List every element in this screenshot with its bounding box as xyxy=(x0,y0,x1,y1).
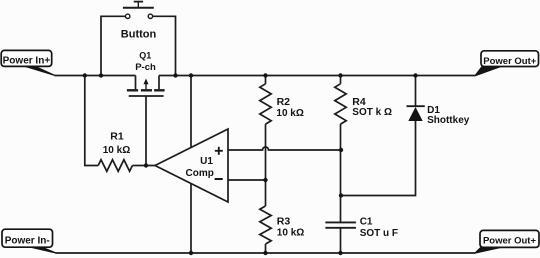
svg-text:C1: C1 xyxy=(360,216,373,227)
svg-text:R3: R3 xyxy=(277,215,291,227)
svg-text:Shottkey: Shottkey xyxy=(427,115,470,126)
svg-text:Power In-: Power In- xyxy=(5,235,50,246)
svg-text:10 kΩ: 10 kΩ xyxy=(276,108,303,119)
svg-text:10 kΩ: 10 kΩ xyxy=(277,228,304,239)
svg-text:P-ch: P-ch xyxy=(135,62,156,73)
svg-text:Button: Button xyxy=(121,29,157,41)
svg-text:SOT u F: SOT u F xyxy=(360,228,398,239)
svg-text:Power Out+: Power Out+ xyxy=(483,236,537,247)
svg-text:R1: R1 xyxy=(110,131,124,143)
svg-text:Power In+: Power In+ xyxy=(3,56,51,67)
svg-text:Comp: Comp xyxy=(186,168,214,179)
svg-text:R2: R2 xyxy=(277,96,291,108)
svg-text:SOT k Ω: SOT k Ω xyxy=(352,107,392,118)
svg-text:Power Out+: Power Out+ xyxy=(483,56,537,67)
svg-text:U1: U1 xyxy=(200,156,213,167)
svg-text:Q1: Q1 xyxy=(139,51,151,61)
svg-text:10 kΩ: 10 kΩ xyxy=(103,145,130,156)
